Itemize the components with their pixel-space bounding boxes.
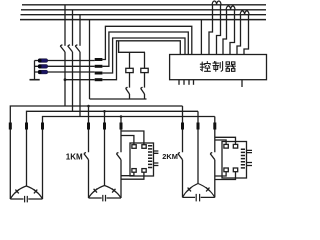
wire TA2 lead 1 [223,10,227,55]
terminal T4 [95,78,103,81]
wire middle bank line 1 [88,106,90,198]
node bus C tap [120,115,123,118]
terminal middle bank 2 [103,123,106,130]
wire KM2 top near [215,140,226,144]
capacitor bank C2 side right [105,186,122,199]
wire TA3 lead 1 [237,15,241,55]
wire power line N [20,19,266,21]
capacitor C1 plates [25,196,28,203]
breaker QF pole 1 upper [64,5,66,46]
wire QF pole 3 lower to bus C [79,52,81,117]
wire TA1 lead 1 [209,5,213,55]
glyph 控 [200,62,210,72]
capacitor C1 tick left [15,189,19,193]
wire KM1 coil leads right [154,151,159,166]
capacitor C3 tick left [187,187,191,191]
wire power line L1 [22,4,266,6]
capacitor bank C2 base [89,197,122,199]
wire sampling line 4 from pole 1 [65,79,95,81]
capacitor C3 tick right [206,187,210,191]
wire KM1 top near [121,136,134,145]
capacitor C2 plates [103,195,106,202]
wire neutral drop to control circuit [89,20,91,99]
wire fuse line 1 [35,60,95,62]
terminal T3 [95,72,103,75]
wire control branch 1 lower [129,94,131,99]
contactor KM2 pad top-right [233,144,237,148]
wire KM2 bottom far [215,172,236,180]
breaker QF pole 3 blade [75,45,80,52]
contactor KM2 device box [222,142,247,179]
wire control branch 2 middle [144,73,146,88]
wire KM2 bottom near [215,172,226,176]
controller U1 box [170,55,267,80]
fuse assembly FU left riser [34,61,36,80]
terminal left bank 3 [41,123,44,130]
wire controller bottom stub 3 [188,80,190,85]
node bus A tap [87,105,90,108]
capacitor bank C3 base [183,196,215,198]
wire KM1 bottom near [121,172,134,175]
fuse FU1 [38,59,47,63]
contact KA1 blade [126,87,130,94]
wire bus A with left drop [10,106,182,199]
node junction pole1-line4 [64,78,67,81]
wire TA1 lead 2 [217,5,221,55]
capacitor bank C1 side right [26,186,42,199]
wire controller bottom stub 2 [183,80,185,85]
wire control branch 1 upper [129,52,131,68]
contact 1KM pole 3 [116,152,121,159]
current transformer TA2 [226,6,235,10]
terminal middle bank 3 [120,123,123,130]
glyph 制 [213,62,223,72]
contactor KM1 comb [148,146,152,168]
wire TA2 lead 2 [230,10,235,55]
wire KM2 coil leads right [247,150,253,165]
wire sampling riser 3 to controller [102,38,185,73]
wire sampling riser 4 control feed [102,41,180,80]
svg-text:2KM: 2KM [162,152,178,161]
svg-text:1KM: 1KM [66,153,83,162]
wire controller bottom stub 1 [178,80,180,85]
wire power line L2 [21,9,266,11]
terminal right bank 2 [197,123,200,130]
contactor KM1 device box [130,143,154,176]
wire right bank line 2 [197,111,199,183]
capacitor bank C2 side left [89,186,105,199]
current transformer TA1 [212,1,221,5]
wire KM1 bottom far [121,172,144,179]
contact 1KM pole 1 [84,152,89,159]
wire right bank line 1 [182,106,184,197]
wire TA3 lead 2 [244,15,249,55]
terminal left bank 2 [25,123,28,130]
terminal right bank 1 [181,123,184,130]
wire controller bottom stub 5 [241,80,243,87]
terminal left bank 1 [9,123,12,130]
glyph 器 [226,62,236,71]
wire right bank line 3 [214,117,216,198]
wire sampling riser 1 to controller [102,26,191,59]
contactor KM1 pad top-right [142,145,146,149]
wire KM2 top far [215,137,236,144]
capacitor C2 tick right [112,189,116,193]
terminal T2 [95,65,103,68]
wire middle bank line 3 [120,117,122,199]
wire control bottom return [90,98,147,100]
contactor KM1 pad bottom-right [142,169,146,173]
wire control branch 1 middle [129,73,131,88]
contactor KM2 comb [241,149,245,168]
terminal T1 [95,58,103,61]
node bus B tap [103,110,106,113]
contactor KM1 pad top-left [132,145,136,149]
contact 2KM pole 1 [178,152,183,159]
breaker QF pole 2 upper [72,10,74,46]
wire middle bank line 2 [104,111,106,185]
wire QF pole 2 lower to bus B [72,52,74,111]
contact 2KM pole 3 [210,152,215,159]
fuse assembly FU bottom bar [30,79,40,81]
contactor KM2 pad bottom-right [233,168,237,172]
breaker QF pole 3 upper [79,15,81,46]
capacitor C2 tick left [93,189,97,193]
wire KM1 top far [121,131,144,145]
contactor KM2 pad top-left [224,144,228,148]
capacitor C3 plates [196,194,199,202]
capacitor C1 tick right [34,189,38,193]
fuse FU4 [126,68,133,72]
terminal right bank 3 [213,123,216,130]
breaker QF pole 1 blade [60,45,65,52]
wire fuse line 3 [35,71,95,73]
wire fuse line 2 [35,65,95,67]
capacitor bank C3 side left [183,184,199,198]
fuse FU2 [38,65,47,69]
wire bus B with left drop [27,111,199,186]
wire control branch 2 upper [144,52,146,68]
terminal middle bank 1 [87,123,90,130]
wire neutral drop to controller [200,20,202,55]
breaker QF pole 2 blade [68,45,73,52]
wire QF pole 1 lower to bus A [64,52,66,106]
wire control feed drop [119,41,145,53]
capacitor bank C3 side right [198,184,215,198]
wire sampling riser 2 to controller [102,32,188,66]
wire control branch 2 lower [144,94,146,99]
contactor KM1 pad bottom-left [132,169,136,173]
contact KA2 blade [141,87,145,94]
capacitor bank C1 base [10,198,42,200]
wire bus C with left drop [43,117,215,200]
contactor KM2 pad bottom-left [224,168,228,172]
fuse FU3 [38,70,47,74]
wire power line L3 [21,14,267,16]
wire controller bottom stub 4 [193,80,195,85]
label controller text 控制器 [200,62,235,72]
capacitor bank C1 side left [10,186,26,199]
fuse FU5 [141,68,148,72]
current transformer TA3 [240,11,249,15]
